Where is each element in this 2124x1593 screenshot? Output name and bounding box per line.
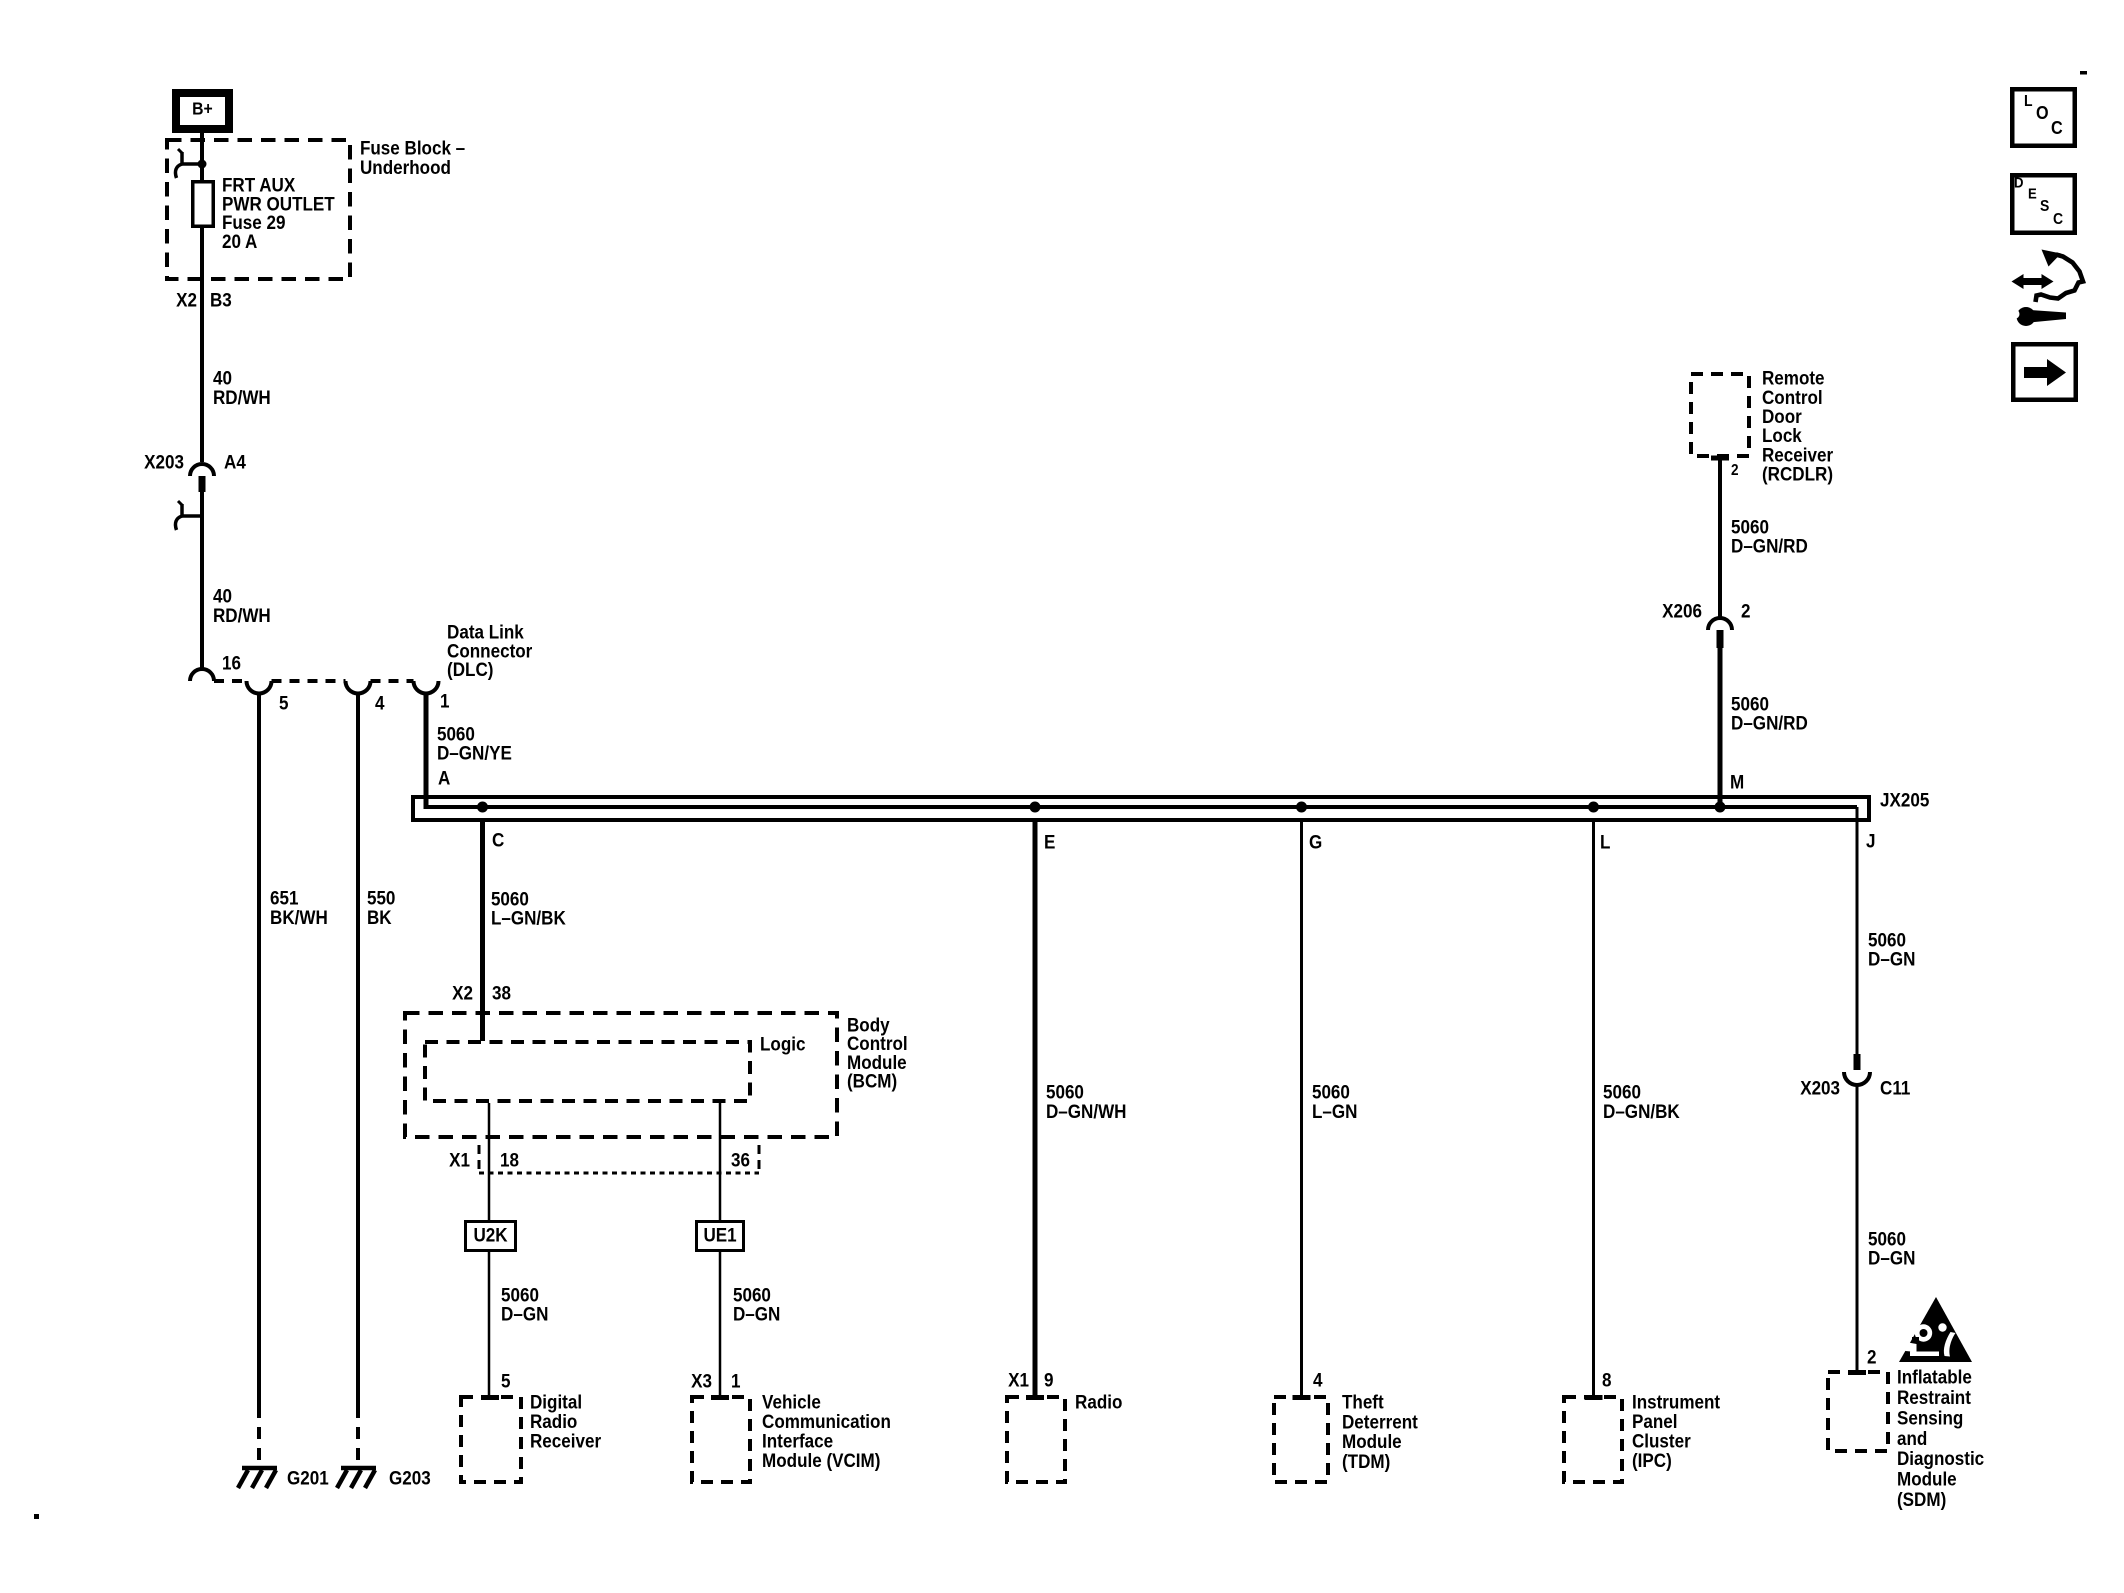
svg-text:L–GN: L–GN xyxy=(1312,1100,1357,1122)
label circuit 5060 L-GN/BK xyxy=(491,888,567,929)
wire 5060 D-GN node J lower xyxy=(1856,1085,1859,1371)
svg-text:Module: Module xyxy=(1897,1468,1957,1490)
svg-text:G: G xyxy=(1309,831,1322,853)
svg-text:8: 8 xyxy=(1602,1369,1611,1391)
label RCDLR name xyxy=(1762,367,1833,485)
svg-text:2: 2 xyxy=(1867,1346,1876,1368)
svg-text:Diagnostic: Diagnostic xyxy=(1897,1447,1984,1469)
radio box xyxy=(1007,1397,1065,1482)
clip terminal below X203 xyxy=(175,501,202,530)
BCM X1 connector right dash xyxy=(758,1145,761,1173)
label circuit 5060 D-GN upper J xyxy=(1868,929,1915,970)
body control module BCM box xyxy=(405,1013,837,1137)
wire 5060 D-GN/WH node E to radio xyxy=(1033,822,1038,1396)
svg-text:D: D xyxy=(2014,174,2023,191)
label circuit 5060 D-GN lower J xyxy=(1868,1228,1915,1269)
svg-text:4: 4 xyxy=(1313,1369,1323,1391)
service icon curved arrow outline xyxy=(2036,250,2084,303)
svg-text:X2: X2 xyxy=(452,982,473,1004)
svg-text:9: 9 xyxy=(1044,1369,1053,1391)
svg-text:D–GN/WH: D–GN/WH xyxy=(1046,1100,1127,1122)
svg-text:E: E xyxy=(1044,831,1055,853)
svg-text:M: M xyxy=(1730,771,1744,793)
svg-text:Restraint: Restraint xyxy=(1897,1386,1971,1408)
service icon double arrow xyxy=(2012,274,2054,289)
wire 5060 D-GN/BK node L to IPC xyxy=(1592,822,1595,1396)
wire BCM logic to UE1 xyxy=(719,1103,722,1221)
svg-text:D–GN: D–GN xyxy=(501,1303,548,1325)
svg-text:X206: X206 xyxy=(1662,600,1702,622)
svg-text:D–GN/RD: D–GN/RD xyxy=(1731,535,1808,557)
svg-text:O: O xyxy=(2036,102,2049,123)
wire 5060 D-GN/YE DLC pin1 to JX205 xyxy=(424,694,429,810)
svg-text:5: 5 xyxy=(501,1370,510,1392)
instrument panel cluster box xyxy=(1564,1397,1622,1482)
svg-text:1: 1 xyxy=(440,690,449,712)
splice pack JX205 internal bus xyxy=(426,805,1857,809)
label Data Link Connector xyxy=(447,621,532,681)
svg-text:J: J xyxy=(1866,830,1875,852)
clip terminal in fuse block xyxy=(175,149,206,178)
label circuit 5060 D-GN/BK xyxy=(1603,1081,1680,1123)
svg-text:(SDM): (SDM) xyxy=(1897,1488,1946,1510)
wire 651 BK/WH dashed tail xyxy=(257,1406,261,1464)
VCIM top pin dash xyxy=(711,1395,729,1400)
svg-text:Sensing: Sensing xyxy=(1897,1406,1963,1428)
label VCIM name xyxy=(762,1391,891,1472)
svg-text:C: C xyxy=(2053,210,2063,228)
svg-text:C: C xyxy=(2051,117,2063,138)
TDM top pin dash xyxy=(1293,1395,1311,1400)
RCDLR box xyxy=(1691,374,1749,456)
SRS airbag warning triangle xyxy=(1899,1297,1972,1362)
svg-text:(BCM): (BCM) xyxy=(847,1069,897,1091)
label SDM name xyxy=(1897,1366,1984,1511)
wire 5060 D-GN UE1 to VCIM xyxy=(719,1252,722,1396)
icon box arrow xyxy=(2013,344,2076,400)
wire 5060 D-GN/RD X206 to node M xyxy=(1718,648,1723,807)
svg-text:BK/WH: BK/WH xyxy=(270,906,328,928)
connector X206 pin tick xyxy=(1717,630,1724,648)
BCM logic box xyxy=(425,1042,750,1101)
svg-text:A4: A4 xyxy=(224,451,247,473)
icon box DESC xyxy=(2012,175,2075,233)
junction node G xyxy=(1296,802,1307,813)
svg-text:UE1: UE1 xyxy=(703,1224,736,1246)
wire fuse 29 to connector X2-B3 xyxy=(200,228,204,462)
svg-text:B3: B3 xyxy=(210,289,232,311)
svg-text:BK: BK xyxy=(367,906,392,928)
svg-text:Radio: Radio xyxy=(1075,1391,1122,1413)
label fuse block name xyxy=(360,137,465,179)
junction node E xyxy=(1030,802,1041,813)
option box UE1 xyxy=(697,1222,744,1251)
svg-text:B+: B+ xyxy=(192,99,213,119)
svg-text:U2K: U2K xyxy=(473,1224,508,1246)
svg-text:L: L xyxy=(2024,92,2033,110)
svg-text:D–GN/YE: D–GN/YE xyxy=(437,742,512,764)
svg-text:L–GN/BK: L–GN/BK xyxy=(491,907,567,929)
connector X206 arc xyxy=(1708,618,1732,630)
svg-text:(TDM): (TDM) xyxy=(1342,1450,1390,1472)
svg-text:36: 36 xyxy=(731,1149,750,1171)
svg-text:RD/WH: RD/WH xyxy=(213,604,271,626)
svg-text:2: 2 xyxy=(1741,600,1750,622)
wire 550 BK from DLC pin 4 xyxy=(356,694,360,1407)
connector X203 A4 arc xyxy=(190,464,214,476)
junction node M xyxy=(1715,802,1726,813)
svg-text:C11: C11 xyxy=(1880,1077,1910,1099)
svg-text:X3: X3 xyxy=(691,1370,712,1392)
svg-text:D–GN: D–GN xyxy=(1868,948,1915,970)
BCM X1 connector dotted line xyxy=(479,1172,759,1175)
svg-text:and: and xyxy=(1897,1427,1927,1449)
svg-text:X2: X2 xyxy=(176,289,197,311)
wire B+ to fuse 29 xyxy=(200,133,204,183)
digital radio receiver box xyxy=(461,1397,521,1482)
fuse block underhood box xyxy=(167,140,350,279)
svg-text:18: 18 xyxy=(500,1149,519,1171)
svg-text:Inflatable: Inflatable xyxy=(1897,1366,1972,1388)
svg-text:1: 1 xyxy=(731,1370,740,1392)
ground G203 xyxy=(337,1468,376,1488)
RCDLR bottom pin dash xyxy=(1711,456,1729,461)
DLC dashed connector line seg3 xyxy=(371,679,414,683)
wire BCM logic to U2K xyxy=(488,1103,491,1221)
label circuit 5060 D-GN mid xyxy=(733,1284,780,1325)
splice pack JX205 outline xyxy=(413,797,1869,820)
svg-text:D–GN/BK: D–GN/BK xyxy=(1603,1100,1680,1122)
label circuit 651 BK/WH xyxy=(270,887,328,929)
label circuit 5060 D-GN/RD lower xyxy=(1731,693,1808,734)
label circuit 5060 D-GN left xyxy=(501,1284,548,1325)
svg-text:L: L xyxy=(1600,831,1610,853)
fuse F29 FRT AUX PWR OUTLET xyxy=(193,182,214,227)
DLC pin 16 arc xyxy=(190,669,214,681)
label circuit 5060 D-GN/YE xyxy=(437,723,512,764)
svg-text:G203: G203 xyxy=(389,1467,431,1489)
VCIM box xyxy=(692,1397,750,1482)
wire 5060 L-GN/BK node C to BCM xyxy=(480,822,485,1041)
icon right arrow xyxy=(2024,359,2066,386)
label BCM name xyxy=(847,1014,908,1092)
junction node L xyxy=(1588,802,1599,813)
svg-text:Logic: Logic xyxy=(760,1033,805,1055)
svg-text:RD/WH: RD/WH xyxy=(213,386,271,408)
svg-text:D–GN: D–GN xyxy=(733,1303,780,1325)
svg-text:38: 38 xyxy=(492,982,511,1004)
stray mark bottom left xyxy=(34,1514,39,1519)
svg-text:JX205: JX205 xyxy=(1880,789,1929,811)
wire 5060 D-GN U2K to DRR xyxy=(488,1252,491,1396)
junction node C xyxy=(477,802,488,813)
connector X203 C11 pin tick xyxy=(1854,1054,1861,1070)
DLC dashed connector line seg2 xyxy=(272,679,346,683)
label circuit 5060 D-GN/WH xyxy=(1046,1081,1127,1123)
wire 651 BK/WH from DLC pin 5 xyxy=(257,694,261,1407)
svg-text:D–GN/RD: D–GN/RD xyxy=(1731,712,1808,734)
label circuit 5060 D-GN/RD upper xyxy=(1731,516,1808,557)
label DRR name xyxy=(530,1391,601,1452)
SDM box xyxy=(1828,1372,1888,1451)
label circuit 550 BK xyxy=(367,887,395,929)
wire X203-A4 to DLC pin 16 xyxy=(200,492,204,669)
svg-text:X1: X1 xyxy=(1008,1369,1029,1391)
connector X203 A4 pin tick xyxy=(199,476,206,492)
DRR top pin dash xyxy=(481,1395,499,1400)
label IPC name xyxy=(1632,1391,1720,1472)
label circuit 40 RD/WH lower xyxy=(213,585,271,627)
DLC dashed connector line seg1 xyxy=(214,679,247,683)
radio top pin dash xyxy=(1026,1395,1044,1400)
svg-text:16: 16 xyxy=(222,652,241,674)
option box U2K xyxy=(466,1222,516,1251)
IPC top pin dash xyxy=(1585,1395,1603,1400)
svg-text:X1: X1 xyxy=(449,1149,470,1171)
SDM top pin dash xyxy=(1848,1370,1866,1375)
svg-text:Module (VCIM): Module (VCIM) xyxy=(762,1449,880,1471)
BCM X1 connector left dash xyxy=(478,1145,481,1173)
DLC pin 1 arc xyxy=(414,681,439,694)
battery B+ terminal box xyxy=(176,93,229,129)
svg-text:20 A: 20 A xyxy=(222,230,257,252)
svg-text:5: 5 xyxy=(279,692,288,714)
DLC pin 4 arc xyxy=(346,681,371,694)
icon box LOC xyxy=(2012,89,2075,146)
svg-text:A: A xyxy=(438,767,450,789)
wire 550 BK dashed tail xyxy=(356,1406,360,1464)
ground G201 xyxy=(238,1468,277,1488)
svg-text:(DLC): (DLC) xyxy=(447,658,493,680)
svg-text:E: E xyxy=(2028,185,2037,202)
DLC pin 5 arc xyxy=(247,681,272,694)
wire 5060 D-GN node J upper xyxy=(1856,807,1859,1054)
wire 5060 L-GN node G to TDM xyxy=(1300,822,1303,1396)
connector X203 C11 arc xyxy=(1844,1072,1870,1085)
label fuse 29 name xyxy=(222,174,335,253)
svg-text:Receiver: Receiver xyxy=(530,1429,601,1451)
label circuit 40 RD/WH upper xyxy=(213,367,271,409)
svg-text:X203: X203 xyxy=(1800,1077,1840,1099)
label circuit 5060 L-GN xyxy=(1312,1081,1357,1123)
label TDM name xyxy=(1342,1391,1418,1473)
svg-text:C: C xyxy=(492,829,504,851)
svg-text:4: 4 xyxy=(375,692,385,714)
svg-text:Underhood: Underhood xyxy=(360,156,451,178)
svg-text:S: S xyxy=(2040,197,2049,215)
svg-text:X203: X203 xyxy=(144,451,184,473)
service icon wrench xyxy=(2010,307,2067,326)
svg-text:(IPC): (IPC) xyxy=(1632,1449,1672,1471)
theft deterrent module box xyxy=(1274,1397,1328,1482)
svg-text:G201: G201 xyxy=(287,1467,329,1489)
stray mark top right xyxy=(2080,71,2087,75)
svg-text:2: 2 xyxy=(1731,462,1739,479)
svg-text:D–GN: D–GN xyxy=(1868,1247,1915,1269)
wire 5060 D-GN/RD RCDLR to X206 xyxy=(1718,458,1722,619)
svg-text:(RCDLR): (RCDLR) xyxy=(1762,463,1833,485)
